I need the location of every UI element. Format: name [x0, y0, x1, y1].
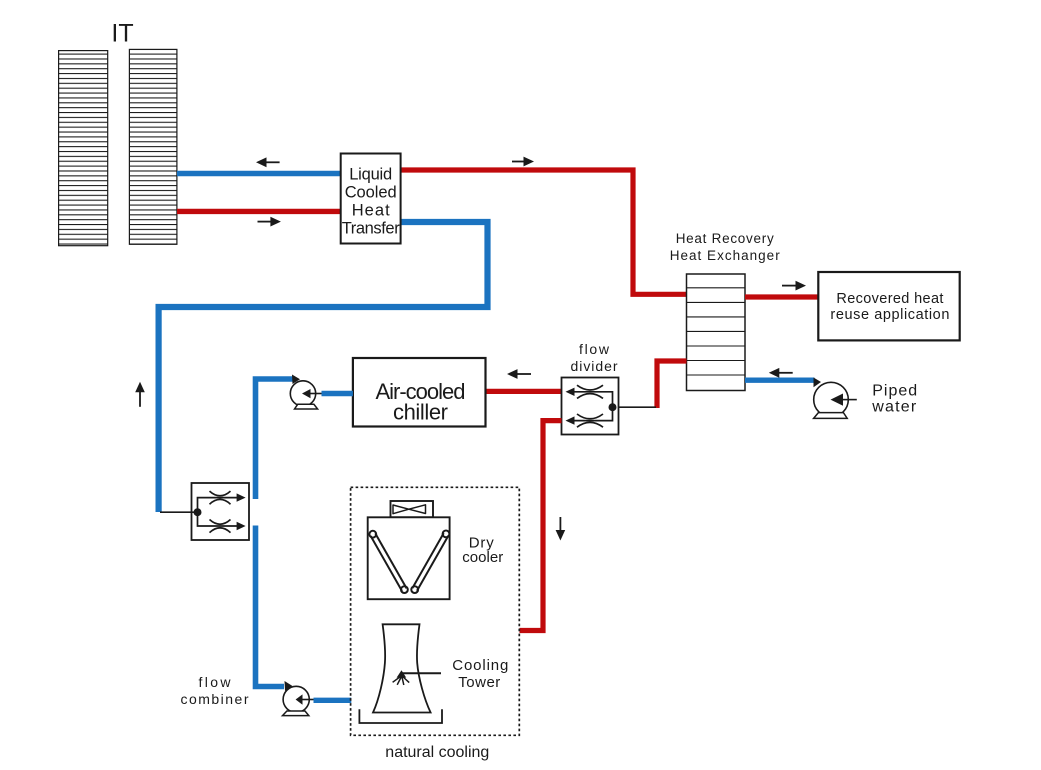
arrow up on cold return vertical — [135, 382, 145, 407]
svg-text:Cooling: Cooling — [452, 657, 508, 674]
svg-text:Piped: Piped — [872, 382, 917, 399]
cooling tower spray symbol — [393, 670, 410, 685]
svg-text:Heat: Heat — [352, 202, 390, 220]
flow divider box — [562, 378, 619, 435]
flow divider junction node dot — [609, 403, 617, 411]
arrow down along red natural cooling pipe — [556, 517, 566, 541]
label Dry cooler — [462, 534, 503, 566]
arrow right to reuse application — [782, 281, 806, 291]
pipe: blue cold water LCHT down and left to flow combiner — [159, 222, 488, 512]
IT rack 1 — [59, 51, 108, 246]
wire: junction dot line from flow divider to red pipe — [613, 406, 657, 408]
heat exchanger HX: Heat Recovery Heat Exchanger body — [687, 274, 746, 391]
flow divider bottom valve (venturi arcs) — [577, 414, 603, 427]
flow divider top valve (venturi arcs) — [577, 385, 603, 398]
svg-text:Transfer: Transfer — [342, 220, 401, 238]
pipe: blue from flow combiner down to cooling tower pump — [256, 526, 285, 687]
cooling tower basin — [359, 709, 442, 723]
arrow left above chiller inlet pipe — [507, 369, 531, 379]
wire: blue pipe end to combiner junction — [160, 511, 198, 513]
flow combiner junction node dot — [194, 508, 202, 516]
svg-text:chiller: chiller — [393, 400, 448, 425]
pipe: red hot output HX to recovered heat reuse application — [745, 294, 819, 299]
svg-text:Recovered heat: Recovered heat — [836, 291, 943, 307]
svg-text:Heat Recovery: Heat Recovery — [676, 231, 774, 246]
pump P2: cooling tower pump — [283, 681, 314, 716]
arrow left above cold supply pipe — [256, 157, 280, 167]
pump P1: chiller circuit pump — [290, 375, 321, 410]
pipe: red from HX left side down to flow divider junction — [657, 361, 687, 408]
svg-text:flow: flow — [579, 341, 610, 357]
pipe: red hot return from IT racks to Liquid Cooled Heat Transfer — [177, 209, 342, 214]
svg-text:IT: IT — [111, 20, 133, 48]
arrow left on piped water line — [769, 368, 793, 378]
pipe: red from air-cooled chiller to flow divider — [486, 389, 562, 394]
dry cooler right coil — [411, 531, 449, 593]
pipe: blue from flow combiner up to chiller pump — [256, 379, 295, 499]
label Heat Recovery Heat Exchanger — [670, 231, 781, 263]
svg-text:combiner: combiner — [181, 691, 249, 707]
flow combiner internal flow lines with right arrowheads — [198, 493, 246, 530]
label flow divider — [571, 341, 618, 374]
pipe: blue from pump P1 to chiller — [322, 391, 353, 396]
IT rack 2 — [129, 49, 177, 244]
flow combiner bottom valve (venturi arcs) — [210, 520, 231, 533]
dry cooler fan bowtie — [393, 505, 426, 514]
svg-text:Liquid: Liquid — [349, 166, 392, 184]
dry cooler main box — [368, 517, 450, 599]
svg-text:Heat Exchanger: Heat Exchanger — [670, 248, 781, 263]
pipe: blue from pump P2 to cooling tower — [314, 698, 352, 703]
svg-text:cooler: cooler — [462, 549, 503, 566]
svg-text:natural cooling: natural cooling — [385, 744, 489, 761]
flow combiner box — [192, 483, 250, 540]
svg-text:reuse application: reuse application — [830, 307, 949, 323]
flow combiner top valve (venturi arcs) — [210, 491, 231, 504]
svg-text:divider: divider — [571, 358, 618, 374]
label Liquid Cooled Heat Transfer — [342, 166, 401, 238]
pipe: blue cold supply from Liquid Cooled Heat Transfer to IT racks — [177, 171, 342, 176]
pipe: red from flow divider down to natural cooling — [520, 421, 562, 631]
pipe: red hot water LCHT to Heat Recovery Heat Exchanger — [400, 170, 687, 294]
pointer wire from Cooling Tower label to tower — [402, 672, 442, 674]
label Air-cooled chiller — [376, 379, 466, 425]
dry cooler fan box — [391, 501, 434, 517]
pipe: blue piped water from pump to HX — [745, 378, 815, 383]
cooling tower shell — [373, 624, 431, 712]
svg-text:Cooled: Cooled — [345, 184, 397, 202]
dry cooler left coil — [369, 531, 407, 593]
box U1: Liquid Cooled Heat Transfer — [341, 154, 401, 244]
box: Recovered heat reuse application — [818, 272, 959, 340]
arrow right below hot return pipe — [258, 217, 281, 227]
label flow combiner — [181, 674, 249, 707]
flow divider internal flow lines with left arrowheads — [566, 388, 613, 425]
arrow right on hot pipe — [512, 157, 534, 167]
label Recovered heat reuse application — [830, 291, 949, 323]
svg-text:Tower: Tower — [458, 674, 500, 691]
label Piped water — [871, 382, 917, 415]
dashed boundary: natural cooling — [351, 487, 520, 735]
box: Air-cooled chiller — [353, 358, 486, 427]
label Cooling Tower — [452, 657, 508, 691]
pump P3: piped water pump — [814, 378, 857, 419]
